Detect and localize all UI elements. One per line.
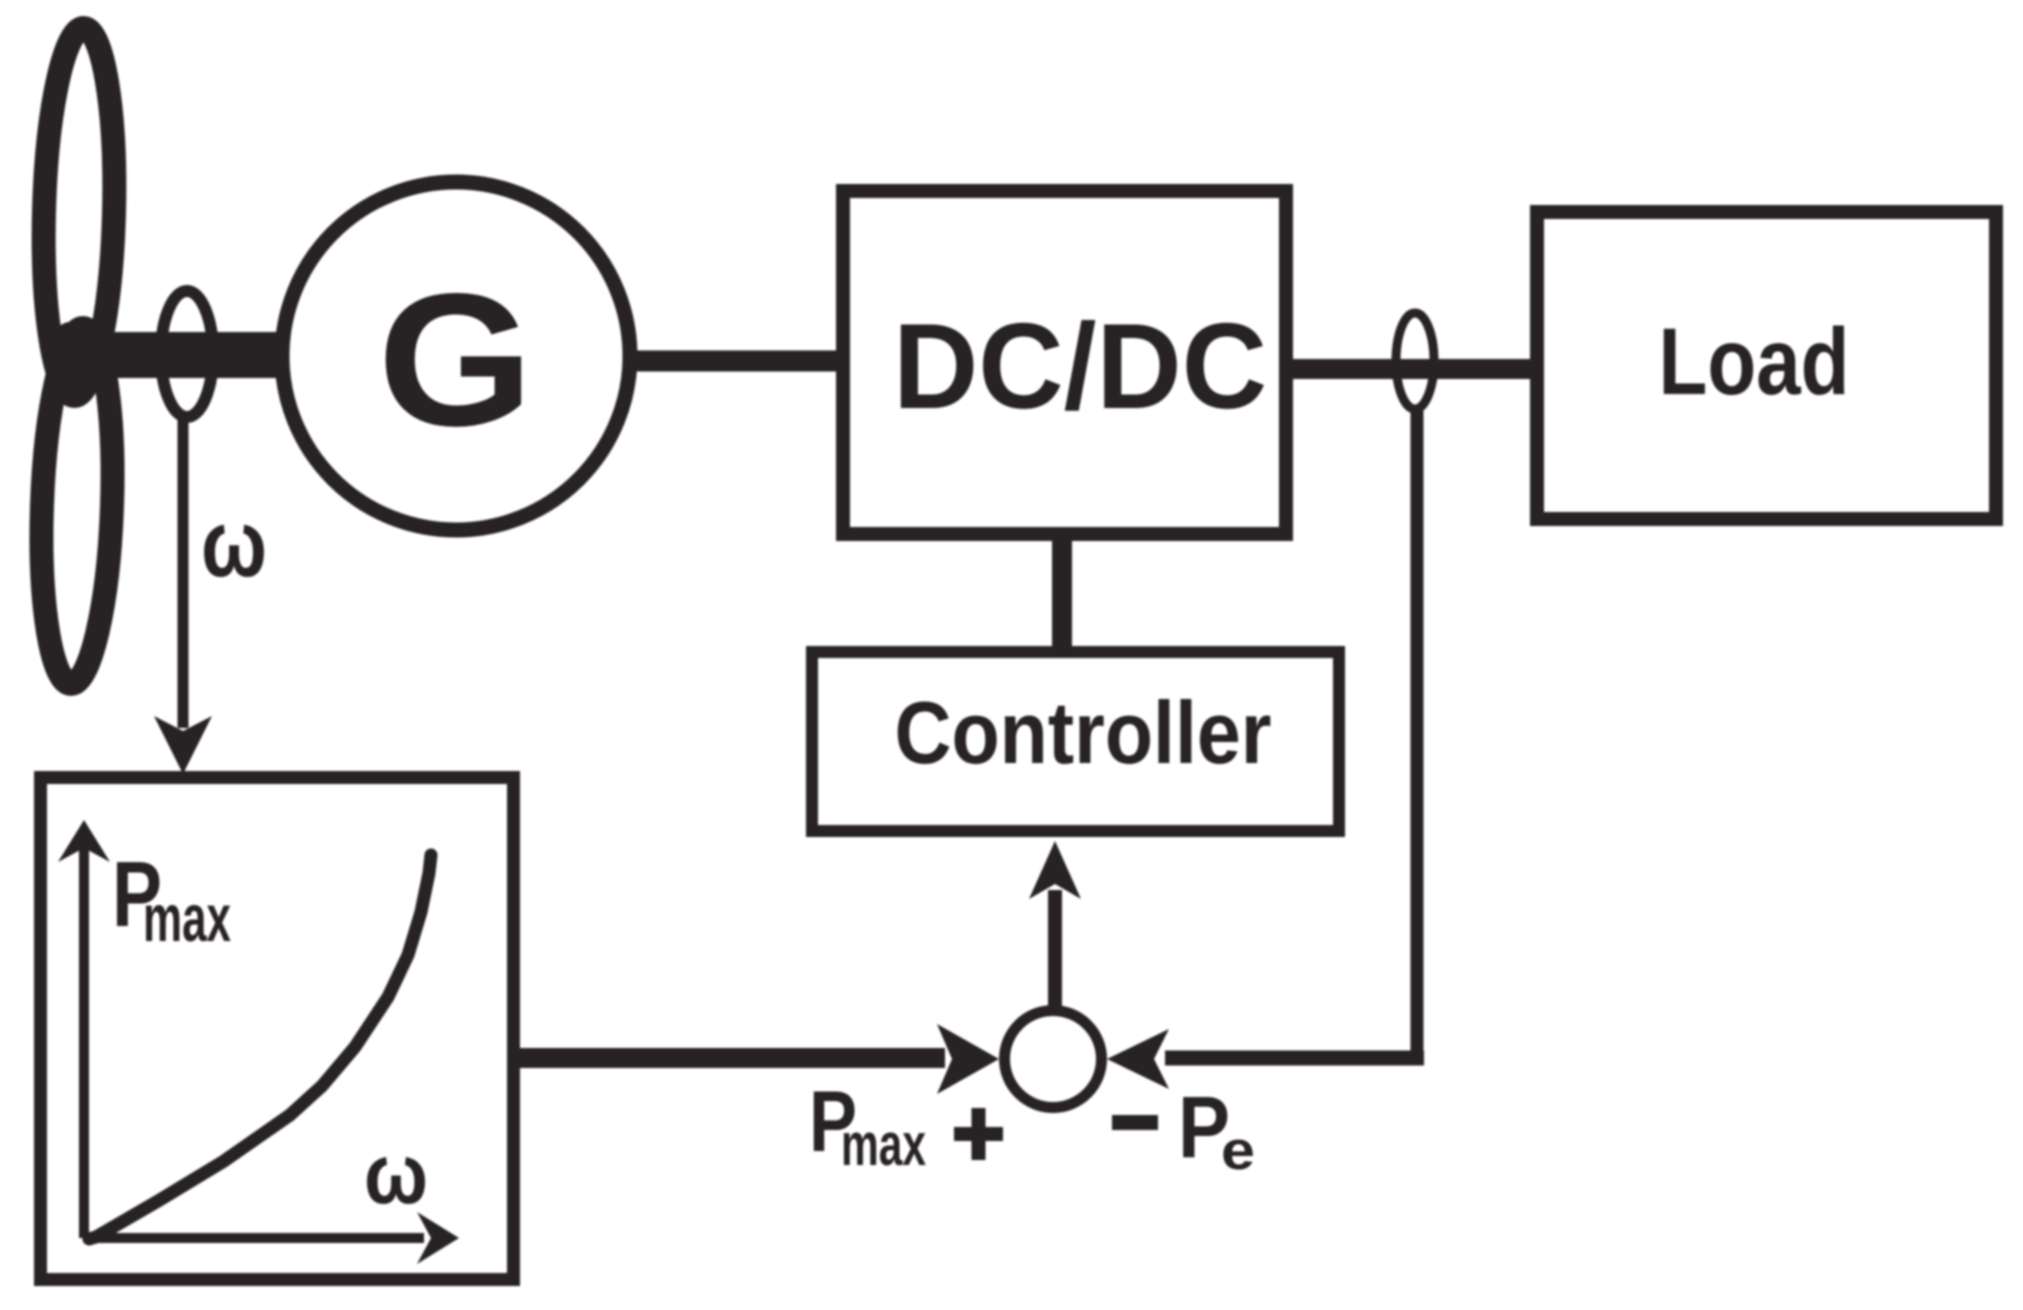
svg-text:DC/DC: DC/DC: [893, 298, 1267, 434]
wire summing junction to Controller: [1048, 890, 1062, 1008]
arrowhead into Controller: [1029, 841, 1081, 899]
lookup table box: [41, 778, 514, 1280]
turbine blade top: [39, 27, 119, 397]
power curve: [89, 855, 431, 1239]
svg-text:max: max: [841, 1111, 926, 1178]
wire DC/DC to Load: [1293, 359, 1537, 379]
arrowhead Pmax into summing junction: [937, 1024, 999, 1094]
speed sensor ellipse: [161, 291, 213, 417]
power sensor ellipse: [1396, 313, 1434, 409]
plus sign vertical bar: [972, 1108, 986, 1160]
hub: [48, 322, 92, 390]
shaft: [57, 332, 285, 378]
svg-text:ω: ω: [364, 1127, 428, 1222]
Controller box: [812, 652, 1339, 831]
turbine blade bottom: [36, 327, 118, 685]
summing junction circle: [1005, 1011, 1102, 1108]
omega arrowhead into lookup box: [154, 716, 212, 774]
arrowhead Pe into summing junction: [1107, 1029, 1169, 1089]
feedback vertical wire from power sensor: [1411, 405, 1424, 1058]
svg-text:max: max: [143, 881, 231, 956]
Load box: [1537, 212, 1996, 519]
wire DC/DC to Controller: [1052, 534, 1072, 652]
svg-text:G: G: [378, 255, 534, 466]
omega wire down from sensor: [178, 417, 189, 728]
DC/DC box: [843, 191, 1286, 534]
svg-text:ω: ω: [201, 490, 267, 597]
wire lookup to summing junction: [514, 1048, 945, 1068]
feedback horizontal wire to summing junction: [1165, 1051, 1424, 1066]
plus sign horizontal bar: [954, 1127, 1003, 1141]
y axis arrowhead: [58, 820, 110, 862]
svg-text:Controller: Controller: [895, 683, 1272, 782]
x axis line: [84, 1233, 424, 1243]
x axis arrowhead: [417, 1212, 459, 1264]
svg-text:Load: Load: [1659, 309, 1850, 415]
y axis line: [79, 848, 89, 1238]
generator circle G: [282, 182, 630, 530]
minus sign: [1112, 1115, 1158, 1130]
wire G to DC/DC: [620, 351, 843, 372]
svg-text:e: e: [1221, 1119, 1255, 1181]
